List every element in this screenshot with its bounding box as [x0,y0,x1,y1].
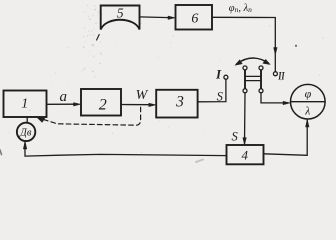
svg-text:S: S [217,90,224,104]
block 5 [101,6,140,30]
svg-text:Дв: Дв [19,128,32,139]
wire 4 to motor DV [25,142,227,156]
stray mark left edge [0,150,2,155]
node II [273,72,277,76]
block 4 [227,145,264,164]
block 2 [81,89,121,116]
wire 1 to motor DV [26,117,28,123]
svg-text:a: a [59,89,67,105]
block 1 [4,91,47,118]
svg-text:6: 6 [191,12,198,27]
stray mark near block 5 [97,35,100,41]
node I [224,75,228,79]
wire 2 to 3 [121,104,150,106]
wire 5 to 6 [140,16,170,19]
rotation arc arrow [237,58,269,64]
svg-text:φп, λп: φп, λп [229,3,252,14]
wire switch to indicator [261,93,285,103]
svg-text:W: W [136,88,149,103]
block 6 [176,5,213,30]
block 3 [156,90,197,118]
svg-text:5: 5 [117,6,124,21]
switch rungs [245,75,261,77]
switch commutator contacts [243,66,247,70]
svg-text:4: 4 [242,148,249,163]
svg-text:3: 3 [175,94,184,111]
indicator phi lambda [291,84,326,119]
wire 6 to node II [212,17,275,71]
motor DV [17,123,35,141]
wire switch to block 4 [244,93,247,145]
wire 4 to indicator [264,120,308,155]
dashed feedback W to block 1 [44,106,141,125]
svg-text:2: 2 [99,97,107,114]
svg-text:λ: λ [304,105,310,117]
svg-text:1: 1 [21,96,28,111]
stray dot top right [295,45,297,47]
svg-text:S: S [231,130,238,144]
faint smudge bottom middle [196,160,203,163]
switch bars [244,70,246,88]
wire 3 to node I [198,79,226,102]
wire 1 to 2 [47,103,76,105]
svg-text:I: I [215,66,222,81]
svg-text:φ: φ [305,87,312,101]
svg-text:II: II [278,69,286,83]
